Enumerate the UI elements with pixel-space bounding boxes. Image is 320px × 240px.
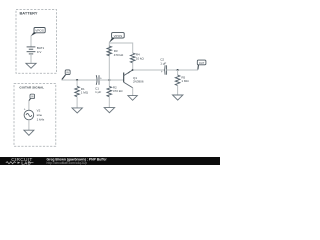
svg-text:LAB: LAB	[21, 160, 31, 165]
CircuitLab logo	[6, 157, 34, 165]
ground (R2)	[104, 108, 114, 113]
svg-text:OUT: OUT	[199, 61, 205, 65]
svg-text:2N3906: 2N3906	[133, 79, 144, 83]
svg-text:IN: IN	[31, 96, 34, 99]
ground (R5)	[173, 95, 183, 100]
ground (Q1 collector)	[128, 96, 137, 101]
resistor R2	[108, 80, 110, 86]
ground (R1)	[72, 108, 82, 113]
svg-text:VPOS: VPOS	[114, 34, 123, 38]
svg-text:9 V: 9 V	[37, 50, 42, 54]
svg-text:V2: V2	[37, 108, 41, 112]
wire flag to source	[28, 100, 30, 110]
svg-text:1 µF: 1 µF	[160, 61, 166, 65]
node junction base/R2/R3	[108, 79, 110, 81]
svg-text:sine: sine	[37, 113, 43, 117]
svg-text:470 kΩ: 470 kΩ	[114, 53, 124, 57]
wire source to ground	[28, 120, 30, 130]
wire flag to battery	[30, 36, 32, 47]
battery BAT1	[27, 47, 36, 54]
resistor R4	[130, 53, 135, 63]
svg-text:IN: IN	[66, 71, 69, 75]
capacitor C1	[96, 75, 99, 85]
wire C2 to OUT	[167, 69, 199, 71]
svg-text:+: +	[161, 70, 163, 74]
node flag VPOS (main)	[109, 33, 124, 43]
resistor R5	[175, 75, 180, 85]
svg-text:10 kΩ: 10 kΩ	[136, 56, 145, 60]
node flag IN (guitar box)	[29, 94, 35, 101]
wire junction to R5	[177, 70, 179, 75]
wire R3 top rail	[109, 43, 132, 80]
svg-text:VPOS: VPOS	[35, 29, 44, 33]
node flag OUT	[197, 60, 206, 69]
ground (battery)	[26, 63, 36, 68]
node junction R1	[76, 79, 78, 81]
ground (guitar)	[24, 130, 34, 135]
node flag IN (main)	[62, 70, 70, 80]
wire collector to ground	[132, 88, 134, 96]
svg-text:1 µF: 1 µF	[95, 90, 101, 94]
wire R1 to ground	[76, 97, 78, 108]
svg-text:470 kΩ: 470 kΩ	[113, 89, 123, 93]
wire R2 to ground	[108, 97, 110, 108]
node flag VPOS (battery)	[31, 28, 46, 37]
wire R4 to emitter node	[132, 62, 134, 70]
sine source V2	[24, 110, 34, 120]
svg-text:1 MΩ: 1 MΩ	[181, 79, 189, 83]
wire R5 to ground	[177, 85, 179, 95]
svg-text:+: +	[24, 107, 26, 111]
transistor Q1	[124, 70, 144, 88]
svg-text:BATTERY: BATTERY	[20, 11, 38, 16]
wire IN to C1	[62, 79, 97, 81]
svg-text:http://circuitlab.com/c4q3Up: http://circuitlab.com/c4q3Up	[47, 161, 88, 165]
wire C1 to base	[99, 79, 124, 81]
capacitor C2	[165, 65, 167, 74]
wire junction to R1	[76, 80, 78, 86]
svg-text:1 kHz: 1 kHz	[37, 117, 45, 121]
svg-text:1 MΩ: 1 MΩ	[81, 90, 89, 94]
wire emitter to C2	[133, 69, 165, 71]
battery enclosure dashed box	[16, 10, 57, 74]
guitar signal enclosure dashed box	[14, 84, 56, 147]
resistor R3	[107, 46, 112, 56]
footer bar	[0, 157, 220, 165]
resistor R1	[75, 86, 80, 96]
node junction emitter	[132, 69, 134, 71]
node junction R5	[177, 69, 179, 71]
svg-text:GUITAR SIGNAL: GUITAR SIGNAL	[19, 85, 44, 89]
wire battery to ground	[30, 54, 32, 63]
